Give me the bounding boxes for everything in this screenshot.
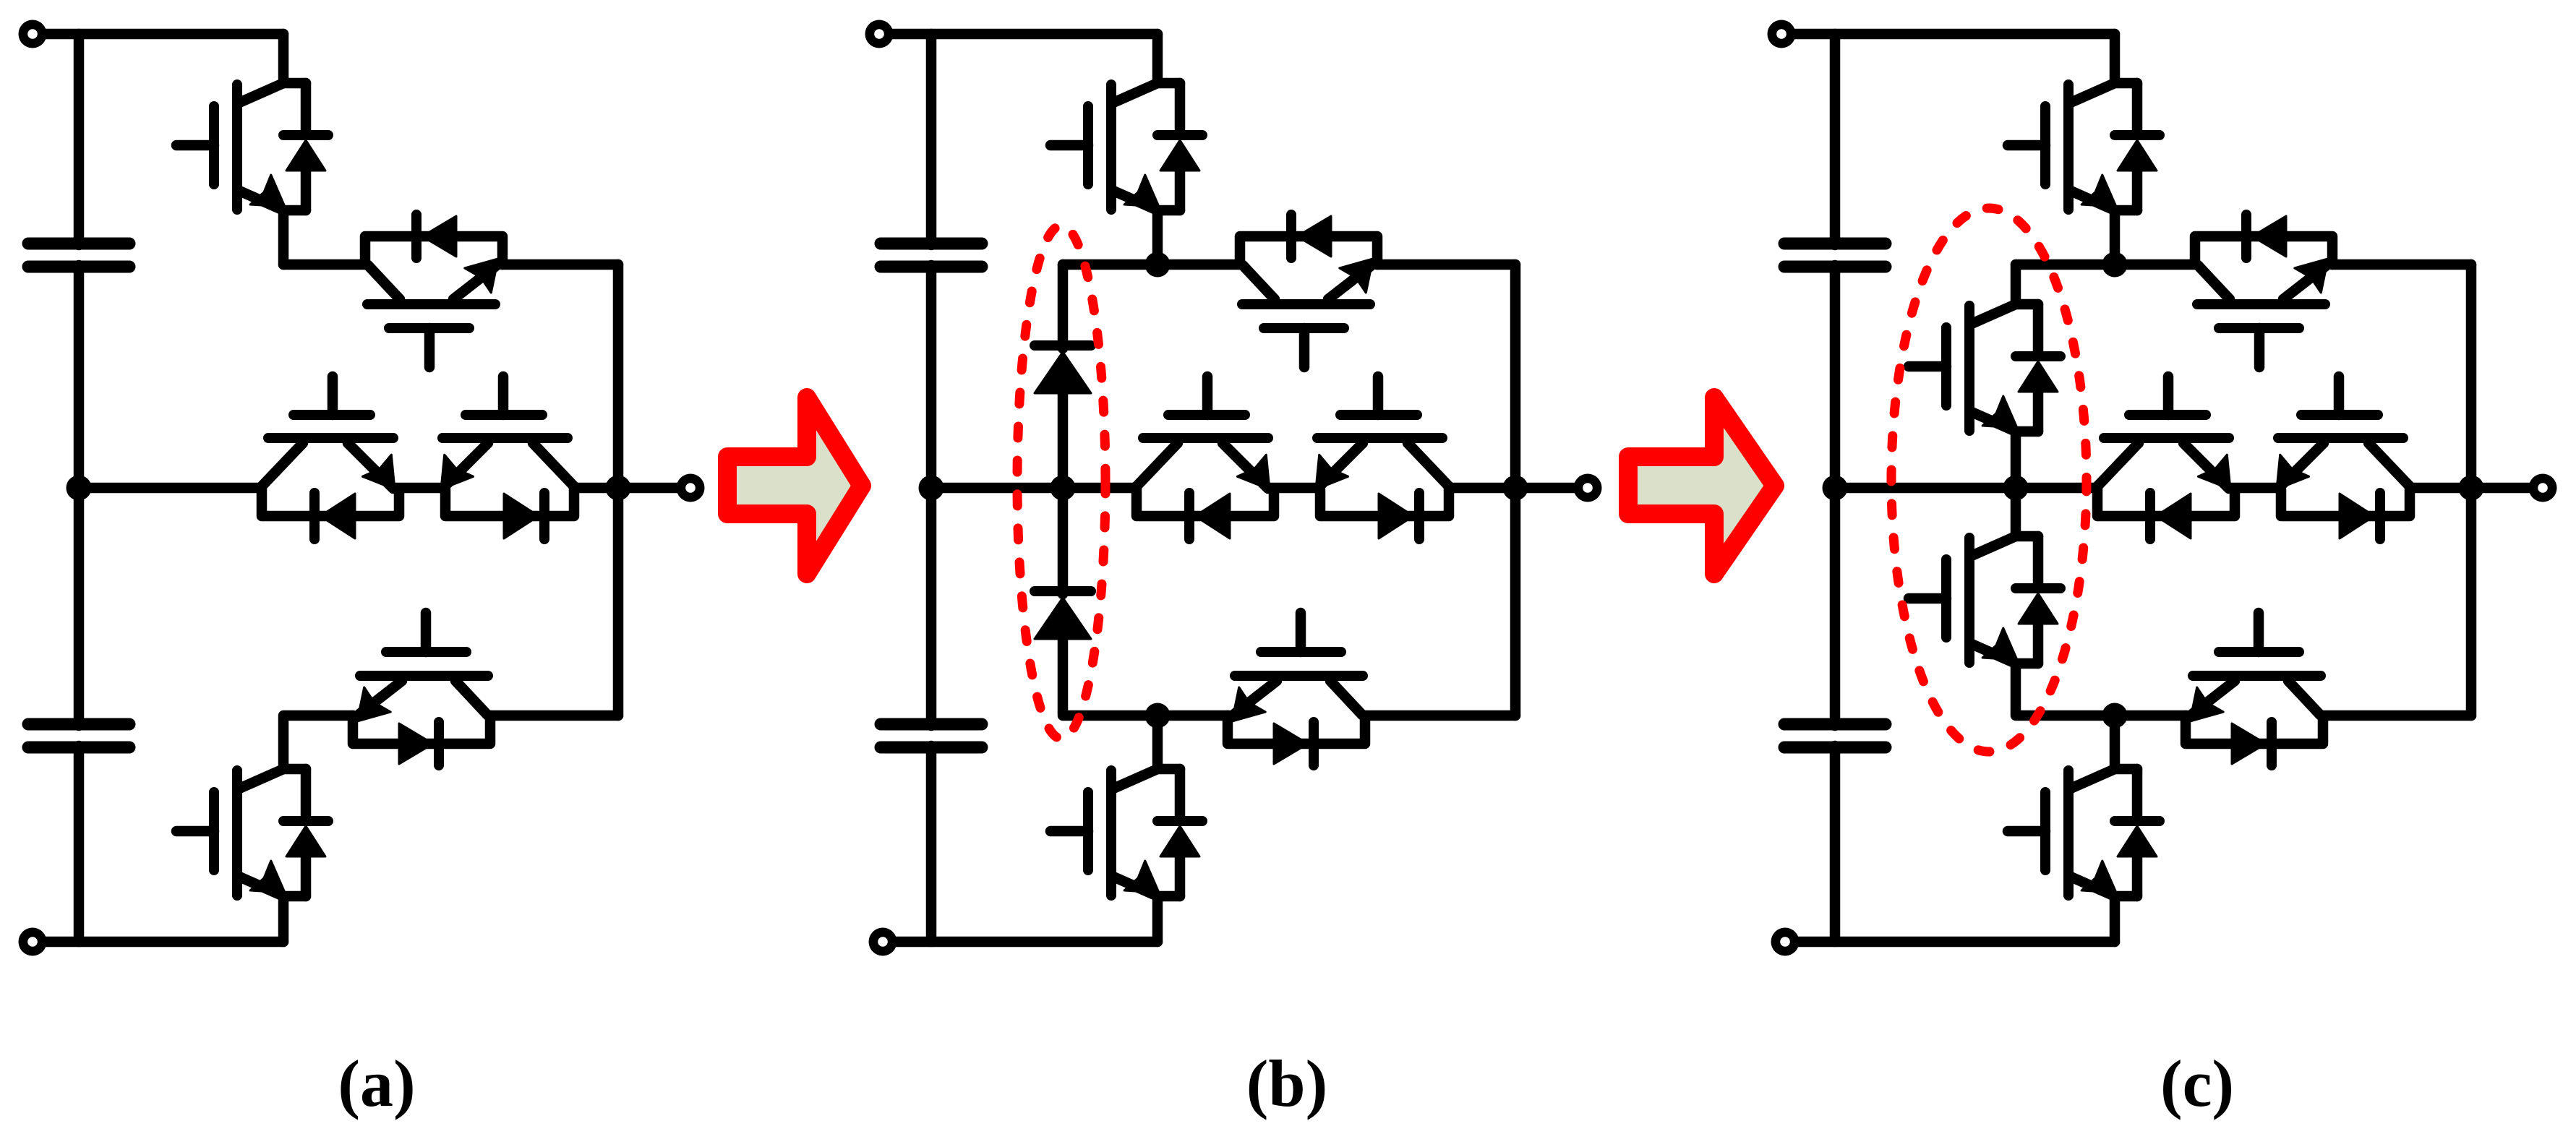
- wire midpoint to pair (panel b): [931, 483, 1137, 494]
- wire bottom rail (panel c): [1785, 937, 2115, 948]
- node bottom junction (panel c): [2102, 703, 2128, 729]
- wire left rail upper (panel c): [1830, 34, 1841, 245]
- wire output (panel c): [2471, 483, 2543, 494]
- node mid-left junction (panel b): [919, 476, 944, 501]
- wire bottom rail (panel a): [33, 937, 283, 948]
- transistor T6 bottom IGBT (panel c): [2008, 716, 2160, 942]
- terminal AC output (panel a): [677, 474, 705, 502]
- capacitor C1 (panel b): [881, 244, 982, 267]
- wire clamp to right rail (panel c): [2332, 259, 2471, 270]
- wire output (panel b): [1515, 483, 1588, 494]
- transistor T7 clamp IGBT upper (panel c): [1909, 304, 2061, 488]
- node branch mid junction (panel c): [2003, 476, 2029, 501]
- wire D2 to bottom elbow (panel b): [1063, 639, 1158, 716]
- transistor T2 upper clamp IGBT (panel c): [2195, 215, 2332, 367]
- capacitor C2 (panel c): [1784, 724, 1886, 747]
- wire top rail (panel b): [879, 29, 1158, 40]
- node bottom junction (panel b): [1145, 703, 1171, 729]
- red arrow a to b: [727, 398, 862, 574]
- wire common emitter (panel b): [1268, 483, 1319, 494]
- transistor T3 bidirectional left (panel b): [1135, 377, 1274, 539]
- svg-text:(b): (b): [1246, 1047, 1327, 1120]
- terminal DC+ (panel a): [19, 20, 47, 48]
- node output junction (panel a): [606, 476, 631, 501]
- wire branch to bottom node (panel c): [2016, 663, 2115, 716]
- label (c): [2160, 1047, 2234, 1120]
- wire bottom node to clamp (panel c): [2115, 710, 2187, 721]
- wire right rail (panel a): [613, 265, 624, 716]
- label (b): [1246, 1047, 1327, 1120]
- wire output (panel a): [618, 483, 690, 494]
- transistor T1 top IGBT (panel c): [2008, 34, 2160, 265]
- transistor T3 bidirectional left (panel a): [260, 377, 399, 539]
- transistor T4 bidirectional right (panel c): [2277, 377, 2411, 539]
- wire clamp to right rail bottom (panel a): [490, 710, 618, 721]
- capacitor C2 (panel a): [28, 724, 129, 747]
- wire right rail (panel b): [1510, 265, 1521, 716]
- wire midpoint to pair (panel c): [1835, 483, 2097, 494]
- node branch mid junction (panel b): [1050, 476, 1076, 501]
- wire left rail upper (panel a): [74, 34, 85, 245]
- wire D1 to midpoint (panel b): [1058, 392, 1069, 488]
- wire left rail middle (panel a): [74, 265, 85, 726]
- transistor T4 bidirectional right (panel a): [441, 377, 575, 539]
- wire left rail middle (panel c): [1830, 265, 1841, 726]
- node output junction (panel c): [2459, 476, 2484, 501]
- terminal DC+ (panel b): [865, 20, 894, 48]
- svg-text:(c): (c): [2160, 1047, 2234, 1120]
- transistor T6 bottom IGBT (panel b): [1050, 716, 1202, 942]
- wire clamp to right rail bottom (panel b): [1365, 710, 1515, 721]
- transistor T6 bottom IGBT (panel a): [176, 769, 328, 942]
- terminal DC- (panel c): [1771, 928, 1800, 956]
- wire top node (panel b): [1063, 259, 1240, 270]
- wire top rail (panel a): [33, 29, 283, 40]
- capacitor C1 (panel c): [1784, 244, 1886, 267]
- wire clamp to right rail bottom (panel c): [2323, 710, 2471, 721]
- wire bottom node to clamp (panel b): [1158, 710, 1229, 721]
- diode D1 clamp upper (panel b): [1035, 345, 1091, 393]
- highlight ellipse (panel c): [1891, 208, 2087, 752]
- wire left rail lower (panel c): [1830, 746, 1841, 942]
- capacitor C2 (panel b): [881, 724, 982, 747]
- wire pair to right rail (panel b): [1449, 483, 1515, 494]
- wire left rail upper (panel b): [926, 34, 937, 245]
- transistor T1 top IGBT (panel a): [176, 34, 328, 265]
- wire clamp to right rail (panel b): [1377, 259, 1515, 270]
- terminal DC+ (panel c): [1768, 20, 1796, 48]
- node mid-left junction (panel a): [67, 476, 92, 501]
- capacitor C1 (panel a): [28, 244, 129, 267]
- wire left rail lower (panel b): [926, 746, 937, 942]
- wire branch elbow upper (panel c): [2011, 265, 2021, 304]
- wire clamp to right rail (panel a): [502, 259, 618, 270]
- wire pair to right rail (panel c): [2410, 483, 2471, 494]
- node T1 emitter junction (panel c): [2102, 252, 2128, 278]
- wire left rail lower (panel a): [74, 746, 85, 942]
- wire midpoint branch lower (panel b): [1058, 488, 1069, 594]
- wire common emitter (panel c): [2229, 483, 2280, 494]
- terminal DC- (panel b): [869, 928, 897, 956]
- wire T1 emitter to clamp (panel a): [283, 259, 365, 270]
- wire bottom rail (panel b): [883, 937, 1158, 948]
- wire top node (panel c): [2016, 259, 2195, 270]
- label (a): [338, 1047, 415, 1120]
- node mid-left junction (panel c): [1823, 476, 1848, 501]
- transistor T5 lower clamp IGBT (panel b): [1228, 613, 1365, 765]
- wire left rail middle (panel b): [926, 265, 937, 726]
- wire top rail (panel c): [1781, 29, 2115, 40]
- wire midpoint to pair (panel a): [79, 483, 262, 494]
- transistor T3 bidirectional left (panel c): [2096, 377, 2235, 539]
- terminal AC output (panel c): [2529, 474, 2557, 502]
- node output junction (panel b): [1503, 476, 1528, 501]
- wire clamp diode branch upper (panel b): [1058, 265, 1069, 348]
- node T1 emitter junction (panel b): [1145, 252, 1171, 278]
- red arrow b to c: [1628, 398, 1775, 574]
- wire pair to right rail (panel a): [574, 483, 618, 494]
- svg-text:(a): (a): [338, 1047, 415, 1120]
- transistor T5 lower clamp IGBT (panel c): [2186, 613, 2323, 765]
- transistor T4 bidirectional right (panel b): [1316, 377, 1450, 539]
- wire right rail (panel c): [2466, 265, 2477, 716]
- wire bottom elbow (panel a): [283, 716, 353, 769]
- terminal AC output (panel b): [1574, 474, 1602, 502]
- transistor T5 lower clamp IGBT (panel a): [353, 613, 490, 765]
- diode D2 clamp lower (panel b): [1035, 591, 1091, 639]
- transistor T1 top IGBT (panel b): [1050, 34, 1202, 265]
- transistor T2 upper clamp IGBT (panel a): [365, 215, 502, 367]
- wire common emitter (panel a): [393, 483, 444, 494]
- highlight ellipse (panel b): [1017, 225, 1105, 739]
- transistor T8 clamp IGBT lower (panel c): [1909, 488, 2061, 663]
- terminal DC- (panel a): [19, 928, 47, 956]
- transistor T2 upper clamp IGBT (panel b): [1240, 215, 1377, 367]
